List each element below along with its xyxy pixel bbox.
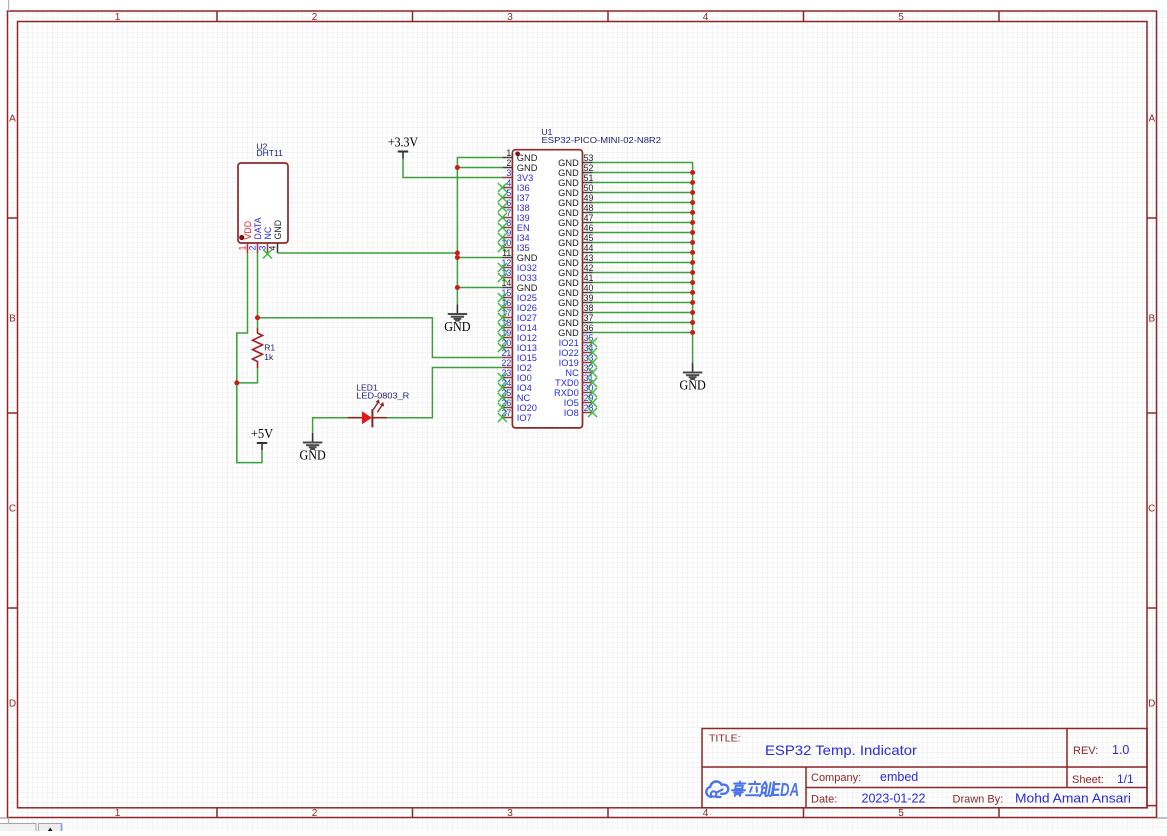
U1 pin 23 IO0: [498, 368, 532, 383]
junction right bus pin52: [690, 170, 695, 175]
svg-text:GND: GND: [558, 308, 579, 318]
U1 pin 46 GND: [558, 223, 593, 238]
junction GND bus pin14: [455, 285, 460, 290]
junction right bus pin38: [690, 310, 695, 315]
svg-text:C: C: [1148, 504, 1155, 515]
U1 pin 17 IO27: [498, 308, 537, 323]
U1 pin 43 GND: [558, 253, 593, 268]
junction GND bus U2 pin4: [455, 251, 460, 256]
U1 pin 1 GND: [502, 148, 537, 163]
svg-text:B: B: [1148, 314, 1155, 325]
svg-text:22: 22: [502, 358, 512, 368]
svg-text:IO14: IO14: [517, 323, 537, 333]
svg-text:GND: GND: [558, 258, 579, 268]
svg-text:48: 48: [584, 203, 594, 213]
svg-text:4: 4: [703, 808, 709, 819]
wire +3.3V to U1 pin3 3V3: [403, 159, 502, 178]
svg-text:IO2: IO2: [517, 363, 532, 373]
svg-text:51: 51: [584, 173, 594, 183]
svg-text:R1: R1: [264, 343, 275, 353]
svg-text:4: 4: [703, 12, 709, 23]
svg-text:38: 38: [584, 303, 594, 313]
junction right bus pin50: [690, 190, 695, 195]
op-amp U1 body (ESP32-PICO-MINI-02-N8R2 IC): [512, 150, 582, 428]
svg-text:GND: GND: [558, 208, 579, 218]
svg-text:IO33: IO33: [517, 273, 537, 283]
wire U1 pin22 IO2 to LED anode: [387, 368, 502, 418]
junction right bus pin43: [690, 260, 695, 265]
svg-text:5: 5: [898, 12, 904, 23]
U1 pin 40 GND: [558, 283, 593, 298]
U1 pin 20 IO13: [498, 338, 537, 353]
svg-text:6: 6: [506, 198, 511, 208]
svg-text:GND: GND: [444, 319, 470, 334]
svg-text:GND: GND: [558, 198, 579, 208]
svg-text:IO22: IO22: [559, 348, 579, 358]
U1 pin 11 GND: [502, 248, 538, 263]
U1 pin 42 GND: [558, 263, 593, 278]
U1 pin 38 GND: [558, 303, 593, 318]
svg-text:GND: GND: [517, 163, 538, 173]
svg-text:2: 2: [312, 808, 318, 819]
U1 pin 25 NC: [498, 388, 531, 403]
wire U1 pin53 GND to right bus: [593, 163, 693, 364]
U1 pin 29 IO5: [564, 393, 597, 408]
U1 pin 9 I34: [498, 228, 530, 243]
svg-text:1.0: 1.0: [1112, 743, 1129, 757]
U1 pin 18 IO14: [498, 318, 537, 333]
canvas edge gray lines: [0, 817, 8, 819]
svg-text:47: 47: [584, 213, 594, 223]
wire U2 pin4 GND to bus: [278, 252, 458, 254]
svg-text:37: 37: [584, 313, 594, 323]
U1 pin 28 IO8: [564, 403, 597, 418]
svg-text:DATA: DATA: [253, 217, 263, 239]
U1 pin 19 IO12: [498, 328, 537, 343]
resistor R1: [253, 328, 276, 368]
svg-text:49: 49: [584, 193, 594, 203]
svg-text:LED-0803_R: LED-0803_R: [356, 390, 409, 400]
svg-text:ESP32-PICO-MINI-02-N8R2: ESP32-PICO-MINI-02-N8R2: [542, 135, 662, 145]
svg-text:C: C: [9, 504, 16, 515]
svg-text:Mohd Aman Ansari: Mohd Aman Ansari: [1015, 792, 1131, 806]
svg-text:RXD0: RXD0: [554, 388, 579, 398]
svg-text:IO15: IO15: [517, 353, 537, 363]
svg-text:IO8: IO8: [564, 408, 579, 418]
wire U1 pin43 GND: [593, 262, 693, 264]
junction GND bus pin11: [455, 255, 460, 260]
wire U1 pin44 GND: [593, 252, 693, 254]
svg-text:1: 1: [506, 148, 511, 158]
U1 pin 4 I36: [498, 178, 530, 193]
svg-text:5: 5: [898, 808, 904, 819]
junction right bus pin46: [690, 230, 695, 235]
svg-text:14: 14: [502, 278, 512, 288]
svg-text:IO19: IO19: [559, 358, 579, 368]
junction R1 bottom / +5V rail: [234, 380, 239, 385]
junction right bus pin42: [690, 270, 695, 275]
svg-text:IO12: IO12: [517, 333, 537, 343]
U1 pin 5 I37: [498, 188, 530, 203]
svg-text:1: 1: [115, 12, 121, 23]
svg-text:Date:: Date:: [811, 794, 837, 806]
svg-text:1/1: 1/1: [1117, 772, 1134, 786]
svg-text:41: 41: [584, 273, 594, 283]
wire R1 bottom to +5V net: [237, 368, 258, 383]
U1 pin 36 GND: [558, 323, 593, 338]
svg-text:I36: I36: [517, 183, 530, 193]
U1 pin 24 IO4: [498, 378, 532, 393]
svg-text:9: 9: [506, 228, 511, 238]
U1 pin 7 I39: [498, 208, 530, 223]
wire U1 pin48 GND: [593, 212, 693, 214]
wire U1 pin50 GND: [593, 192, 693, 194]
wire U1 pin14 GND: [457, 287, 502, 289]
svg-text:GND: GND: [558, 168, 579, 178]
U1 pin 14 GND: [502, 278, 538, 293]
U1 pin 15 IO25: [498, 288, 537, 303]
svg-text:IO27: IO27: [517, 313, 537, 323]
svg-text:4: 4: [506, 178, 511, 188]
U2 pin 4 GND: [268, 220, 284, 253]
wire U1 pin42 GND: [593, 272, 693, 274]
wire DATA from U2 pin2: [257, 253, 259, 328]
svg-text:GND: GND: [558, 228, 579, 238]
junction right bus pin39: [690, 300, 695, 305]
svg-text:2023-01-22: 2023-01-22: [862, 792, 926, 806]
svg-text:B: B: [9, 314, 16, 325]
U1 pin 3 3V3: [502, 168, 533, 183]
svg-text:NC: NC: [565, 368, 579, 378]
U1 pin 26 IO20: [498, 398, 537, 413]
svg-text:45: 45: [584, 233, 594, 243]
U1 pin 53 GND: [558, 153, 593, 168]
svg-text:GND: GND: [558, 278, 579, 288]
junction right bus pin48: [690, 210, 695, 215]
LED LED1 symbol: [347, 399, 387, 427]
svg-text:IO21: IO21: [559, 338, 579, 348]
svg-text:NC: NC: [263, 226, 273, 239]
U1 pin 27 IO7: [498, 408, 532, 423]
svg-text:VDD: VDD: [243, 221, 253, 240]
svg-text:GND: GND: [558, 218, 579, 228]
wire DATA to U1 pin21 IO15: [258, 318, 503, 358]
svg-text:2: 2: [248, 246, 258, 251]
U1 pin 21 IO15: [502, 348, 537, 363]
wire U1 pin47 GND: [593, 222, 693, 224]
no-connect X on U2 pin 3: [263, 250, 272, 259]
svg-text:IO20: IO20: [517, 403, 537, 413]
svg-text:GND: GND: [558, 288, 579, 298]
svg-text:GND: GND: [558, 158, 579, 168]
power symbol +3.3V: [388, 135, 418, 159]
svg-text:GND: GND: [558, 298, 579, 308]
svg-text:D: D: [1148, 699, 1155, 710]
svg-text:embed: embed: [880, 770, 918, 784]
svg-text:GND: GND: [679, 377, 705, 392]
U1 pin 47 GND: [558, 213, 593, 228]
svg-text:36: 36: [584, 323, 594, 333]
wire U1 pin52 GND: [593, 172, 693, 174]
U1 pin 32 NC: [565, 363, 597, 378]
U1 pin 50 GND: [558, 183, 593, 198]
U1 pin 35 IO21: [559, 333, 597, 348]
U1 pin 44 GND: [558, 243, 593, 258]
svg-text:NC: NC: [517, 393, 531, 403]
wire U1 pin40 GND: [593, 292, 693, 294]
wire U1 pin41 GND: [593, 282, 693, 284]
wire +5V net: [237, 253, 262, 463]
svg-text:GND: GND: [558, 178, 579, 188]
svg-text:GND: GND: [517, 253, 538, 263]
svg-text:3: 3: [507, 808, 513, 819]
svg-text:GND: GND: [558, 328, 579, 338]
svg-text:53: 53: [584, 153, 594, 163]
svg-text:IO13: IO13: [517, 343, 537, 353]
svg-text:IO0: IO0: [517, 373, 532, 383]
svg-text:44: 44: [584, 243, 594, 253]
svg-text:TITLE:: TITLE:: [709, 733, 741, 745]
svg-text:1: 1: [115, 808, 121, 819]
svg-text:5: 5: [506, 188, 511, 198]
svg-text:8: 8: [506, 218, 511, 228]
ground GND at LED: [299, 433, 325, 462]
U1 pin 48 GND: [558, 203, 593, 218]
U1 pin 34 IO22: [559, 343, 597, 358]
svg-text:I35: I35: [517, 243, 530, 253]
svg-text:2: 2: [312, 12, 318, 23]
svg-text:2: 2: [506, 158, 511, 168]
U1 pin 16 IO26: [498, 298, 537, 313]
U1 pin 2 GND: [502, 158, 537, 173]
svg-text:4: 4: [268, 246, 278, 251]
U1 pin 30 RXD0: [554, 383, 597, 398]
junction right bus pin51: [690, 180, 695, 185]
svg-text:Sheet:: Sheet:: [1072, 774, 1104, 786]
svg-text:3: 3: [506, 168, 511, 178]
wire U1 pin1 GND bus: [457, 158, 502, 305]
svg-text:IO4: IO4: [517, 383, 532, 393]
U1 pin 41 GND: [558, 273, 593, 288]
wire U1 pin11 GND: [457, 257, 502, 259]
svg-text:DHT11: DHT11: [257, 148, 284, 158]
JLC EDA logo: [706, 779, 799, 800]
U2 pin 3 NC: [258, 226, 274, 253]
svg-text:21: 21: [502, 348, 512, 358]
ground GND center: [444, 305, 470, 334]
svg-text:GND: GND: [517, 283, 538, 293]
title block: [702, 729, 1147, 808]
svg-text:42: 42: [584, 263, 594, 273]
svg-text:3V3: 3V3: [517, 173, 534, 183]
U2 pin 1 VDD: [238, 221, 254, 253]
svg-text:GND: GND: [558, 268, 579, 278]
wire U1 pin46 GND: [593, 232, 693, 234]
svg-text:11: 11: [502, 248, 511, 258]
svg-text:IO32: IO32: [517, 263, 537, 273]
junction right bus pin44: [690, 250, 695, 255]
svg-text:52: 52: [584, 163, 594, 173]
U1 pin 49 GND: [558, 193, 593, 208]
svg-text:46: 46: [584, 223, 594, 233]
wire U1 pin39 GND: [593, 302, 693, 304]
U1 pin 12 IO32: [498, 258, 537, 273]
junction right bus pin45: [690, 240, 695, 245]
U1 pin 13 IO33: [498, 268, 537, 283]
U1 pin 37 GND: [558, 313, 593, 328]
svg-text:I39: I39: [517, 213, 530, 223]
svg-text:+3.3V: +3.3V: [388, 135, 418, 150]
wire U1 pin36 GND: [593, 332, 693, 334]
wire short stub: [347, 417, 362, 419]
svg-text:I38: I38: [517, 203, 530, 213]
svg-text:IO25: IO25: [517, 293, 537, 303]
U1 pin 39 GND: [558, 293, 593, 308]
junction GND bus pin2: [455, 165, 460, 170]
svg-text:39: 39: [584, 293, 594, 303]
wire U1 pin2 GND: [457, 167, 502, 169]
svg-text:GND: GND: [299, 447, 325, 462]
junction right bus pin36: [690, 330, 695, 335]
U1 pin 51 GND: [558, 173, 593, 188]
svg-text:REV:: REV:: [1073, 745, 1098, 757]
wire U1 pin51 GND: [593, 182, 693, 184]
wire U1 pin49 GND: [593, 202, 693, 204]
svg-text:A: A: [9, 114, 16, 125]
svg-text:Company:: Company:: [811, 772, 861, 784]
junction right bus pin49: [690, 200, 695, 205]
svg-text:TXD0: TXD0: [555, 378, 579, 388]
svg-text:IO26: IO26: [517, 303, 537, 313]
svg-text:IO5: IO5: [564, 398, 579, 408]
svg-text:40: 40: [584, 283, 594, 293]
svg-text:EN: EN: [517, 223, 530, 233]
U1 pin 22 IO2: [502, 358, 532, 373]
junction right bus pin47: [690, 220, 695, 225]
U1 pin 45 GND: [558, 233, 593, 248]
wire U1 pin45 GND: [593, 242, 693, 244]
junction DATA / R1 top: [255, 315, 260, 320]
svg-text:GND: GND: [558, 318, 579, 328]
U1 pin 31 TXD0: [555, 373, 597, 388]
svg-text:+5V: +5V: [251, 426, 273, 441]
svg-text:3: 3: [507, 12, 513, 23]
wire U1 pin38 GND: [593, 312, 693, 314]
svg-text:D: D: [9, 699, 16, 710]
wire U1 pin37 GND: [593, 322, 693, 324]
U1 pin 10 I35: [498, 238, 530, 253]
power symbol +5V: [251, 426, 273, 450]
svg-text:7: 7: [506, 208, 511, 218]
svg-text:3: 3: [258, 246, 268, 251]
svg-text:50: 50: [584, 183, 594, 193]
svg-text:43: 43: [584, 253, 594, 263]
junction right bus pin37: [690, 320, 695, 325]
U1 pin 6 I38: [498, 198, 530, 213]
svg-text:GND: GND: [517, 153, 538, 163]
svg-text:EDA: EDA: [772, 779, 800, 800]
title block labels: [709, 733, 1104, 806]
svg-text:IO7: IO7: [517, 413, 532, 423]
U1 pin 33 IO19: [559, 353, 597, 368]
junction right bus pin40: [690, 290, 695, 295]
svg-text:I34: I34: [517, 233, 530, 243]
svg-text:Drawn By:: Drawn By:: [953, 794, 1004, 806]
svg-text:A: A: [1148, 114, 1155, 125]
U2 pin 2 DATA: [248, 217, 264, 253]
transistor U2 body (DHT11 sensor): [238, 163, 288, 243]
svg-text:GND: GND: [558, 238, 579, 248]
U1 pin 52 GND: [558, 163, 593, 178]
svg-text:1: 1: [238, 246, 248, 251]
svg-text:GND: GND: [558, 188, 579, 198]
canvas corner UI: [0, 0, 62, 833]
ground GND right bus: [679, 363, 705, 392]
svg-text:GND: GND: [273, 220, 283, 240]
junction right bus pin41: [690, 280, 695, 285]
svg-text:ESP32 Temp. Indicator: ESP32 Temp. Indicator: [765, 742, 917, 758]
wire LED cathode to GND: [313, 418, 348, 433]
svg-text:I37: I37: [517, 193, 530, 203]
svg-text:GND: GND: [558, 248, 579, 258]
svg-text:1k: 1k: [264, 352, 274, 362]
U1 pin 8 EN: [498, 218, 530, 233]
